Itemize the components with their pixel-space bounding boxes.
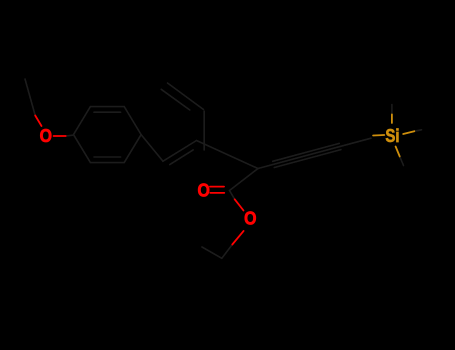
svg-text:Si: Si xyxy=(385,125,399,146)
svg-text:O: O xyxy=(40,125,52,147)
svg-text:O: O xyxy=(244,207,256,229)
svg-text:O: O xyxy=(198,179,210,201)
